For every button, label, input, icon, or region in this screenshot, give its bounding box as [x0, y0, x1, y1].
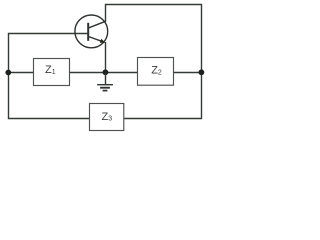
- node junction dot center: [103, 69, 109, 75]
- wire: Z2 to right node: [174, 72, 202, 74]
- wire: Z1 to Z2 through center node: [70, 72, 138, 74]
- wire: collector to top rail to right rail upper: [106, 5, 202, 73]
- transistor Q1 emitter arrowhead: [100, 39, 105, 43]
- node junction dot left: [5, 70, 11, 76]
- impedance box Z3: [90, 104, 124, 131]
- transistor Q1 collector diagonal: [89, 21, 106, 28]
- wire: emitter down to center node: [105, 42, 107, 73]
- transistor Q1 base bar: [87, 23, 89, 41]
- ground symbol: [97, 73, 113, 91]
- wire: right rail lower to bottom rail right segment: [124, 72, 202, 119]
- transistor Q1 emitter diagonal: [89, 37, 105, 43]
- wire: bottom rail left segment, left rail, base wire: [9, 34, 90, 119]
- wire: left node to Z1: [9, 72, 34, 74]
- transistor Q1 circle: [75, 15, 108, 48]
- node junction dot right: [199, 69, 205, 75]
- impedance box Z2: [138, 58, 174, 86]
- impedance box Z1: [34, 59, 70, 86]
